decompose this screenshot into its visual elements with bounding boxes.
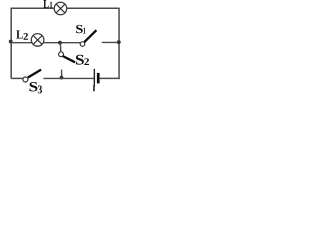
label S3 (30, 82, 43, 93)
wire: S2 branch upper stub (59, 43, 61, 52)
node: right-rail / middle-wire junction (117, 40, 121, 44)
wire: bottom, right segment from battery to right rail (100, 77, 120, 79)
battery: long thin plate (left) (93, 69, 95, 92)
wire: bottom, left segment to switch S3 (11, 77, 23, 79)
wire: top, right segment from lamp L1 to right rail (67, 7, 120, 9)
switch S1 (80, 30, 119, 46)
wire: top, left segment to lamp L1 (11, 7, 55, 9)
lamp L2 (31, 34, 44, 47)
wire: middle segment from lamp L2 to switch S1 (44, 42, 81, 44)
label L1 (43, 0, 52, 8)
battery: short thick plate (right) (97, 73, 100, 84)
wire: bottom, middle segment from S3 to battery (43, 77, 93, 79)
label L2 (16, 31, 28, 40)
switch S3 (23, 70, 41, 82)
node: left-rail / middle-wire junction (9, 40, 13, 44)
node: middle-wire / S2-branch junction (58, 41, 62, 45)
wire: right rail (118, 8, 120, 79)
lamp L1 (54, 2, 67, 15)
wire: middle, left segment to lamp L2 (11, 42, 32, 44)
wire: left rail (10, 8, 12, 78)
label S1 (76, 25, 86, 34)
background (0, 0, 144, 101)
switch S2 (59, 52, 75, 79)
label S2 (76, 55, 89, 65)
node: bottom-wire / S2-branch junction (60, 76, 64, 80)
